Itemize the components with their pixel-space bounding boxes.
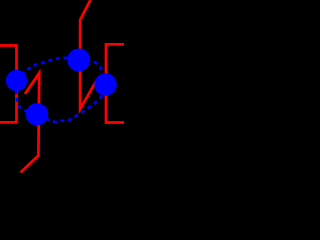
wire strand from top edge through node B to node C: [80, 0, 97, 109]
node C: [94, 73, 116, 95]
wire strand from node A over node D to bottom edge: [21, 73, 40, 173]
wire right bracket (red strand exiting right edge): [106, 44, 124, 122]
node B: [67, 49, 90, 72]
wire left bracket (red strand exiting left edge): [0, 46, 17, 123]
node D: [26, 103, 48, 125]
node A: [6, 70, 27, 91]
dashed ellipse (blue closed curve through the four nodes): [16, 58, 106, 122]
